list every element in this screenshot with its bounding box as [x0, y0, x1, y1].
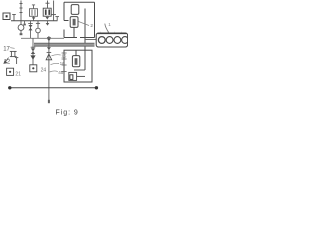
- cylinder 3: [114, 37, 121, 44]
- wire inner vertical pipe: [84, 9, 86, 71]
- cylinder 2: [106, 37, 113, 44]
- symbol H (coupler): [10, 51, 17, 56]
- engine block: [96, 32, 128, 47]
- svg-text:21: 21: [15, 71, 21, 77]
- tank lower rectangle: [64, 50, 92, 82]
- wire riser to V2: [46, 1, 50, 9]
- junction dot left: [8, 86, 11, 89]
- tick 19: [62, 64, 67, 66]
- pump P2 (lower inner box): [70, 17, 78, 38]
- leader to label 2: [79, 22, 90, 26]
- arrow pointer: [4, 58, 9, 64]
- svg-text:1: 1: [108, 22, 111, 27]
- gauge G1 (circle on drop line): [18, 21, 24, 36]
- wire riser with ticks (solenoid line): [20, 1, 23, 21]
- small funnel F3: [46, 21, 50, 26]
- valve box V2 (dark): [43, 8, 51, 16]
- svg-text:17: 17: [3, 46, 10, 52]
- node stub under rail end: [55, 17, 59, 21]
- leader to label 16: [51, 63, 60, 64]
- cylinder 4: [122, 37, 129, 44]
- tick 11: [62, 52, 67, 54]
- wire stem bottom: [48, 100, 50, 103]
- tank upper (big rectangle): [64, 2, 95, 37]
- wire engine feed: [85, 39, 96, 41]
- svg-text:45: 45: [58, 70, 64, 75]
- tick 13: [62, 58, 67, 60]
- pump P3 (inner box upper): [72, 50, 79, 67]
- cylinder 1: [98, 37, 105, 44]
- node T-stub left: [12, 15, 16, 21]
- valve column A (under band): [30, 38, 35, 64]
- valve column B (injector): [46, 36, 52, 103]
- stub valve S1: [23, 21, 25, 26]
- junction dot right: [95, 86, 98, 89]
- wire bottom bus: [10, 87, 97, 89]
- wire main rail: [11, 20, 58, 22]
- filter box (inner lower): [69, 70, 85, 80]
- node stub 14: [15, 58, 18, 64]
- leader engine label: [105, 24, 109, 33]
- tick 21b: [62, 71, 67, 73]
- svg-text:2: 2: [90, 23, 93, 28]
- triangle under V2: [46, 17, 50, 20]
- component box 24a: [30, 65, 37, 72]
- triangle under V1: [32, 17, 36, 20]
- component box 13b: [7, 68, 14, 75]
- box 13 (top-left component): [3, 13, 10, 20]
- leader to label 45: [50, 71, 58, 72]
- valve box V1: [30, 5, 38, 21]
- wire mid horizontal pipe: [21, 37, 64, 39]
- leader to label 15: [52, 55, 61, 56]
- leader from 17: [10, 47, 14, 50]
- pump P1 (upper inner box): [71, 5, 79, 15]
- svg-text:Fig: 9: Fig: 9: [56, 110, 79, 117]
- valve with circle F2: [36, 21, 41, 39]
- svg-text:24: 24: [41, 68, 47, 74]
- rail band (thick gray): [34, 43, 95, 46]
- wire riser right: [51, 1, 56, 21]
- restrictor F1 (funnel pair): [28, 21, 33, 39]
